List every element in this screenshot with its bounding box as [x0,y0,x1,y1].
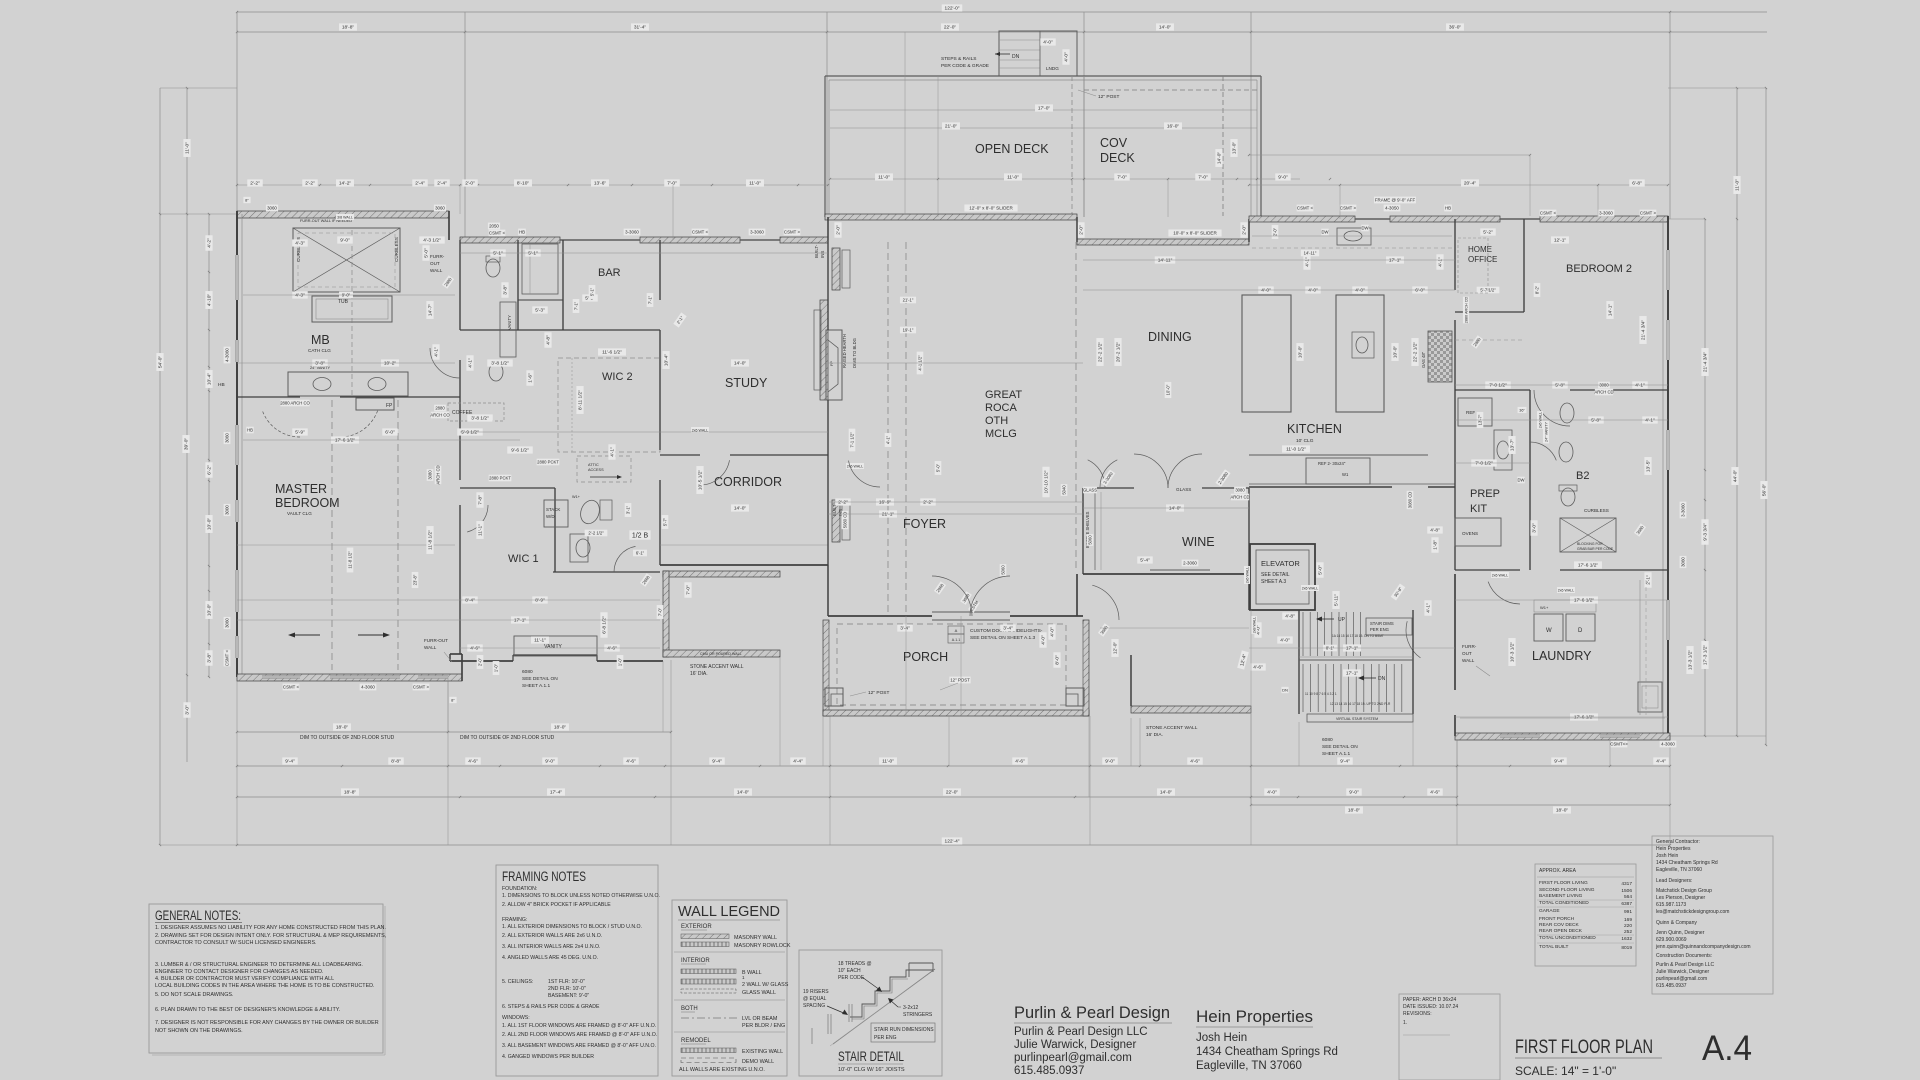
svg-text:BASEMENT: 9'-0": BASEMENT: 9'-0" [548,993,589,999]
bottom extension lines [236,677,238,845]
svg-text:1A 14 15 16 17 18 19: 1A 14 15 16 17 18 19- DN TO BSMT [1332,634,1384,638]
svg-text:7'-0": 7'-0" [1117,175,1127,181]
home office desk [1458,238,1488,293]
svg-text:8'-2": 8'-2" [1535,285,1540,294]
svg-text:PREP: PREP [1470,488,1500,500]
front wall and door [828,615,932,617]
svg-text:EXTERIOR: EXTERIOR [681,924,712,930]
svg-text:17'-1": 17'-1" [1346,646,1359,652]
stair detail box [799,950,942,1076]
svg-text:4-3060: 4-3060 [225,348,230,362]
svg-text:DIM TO OUTSIDE OF 2ND FLOOR ST: DIM TO OUTSIDE OF 2ND FLOOR STUD [460,735,555,741]
svg-text:PER CODE: PER CODE [838,975,865,981]
svg-text:DECK: DECK [1100,151,1135,165]
svg-text:2. ALL EXTERIOR WALLS ARE 2x6: 2. ALL EXTERIOR WALLS ARE 2x6 U.N.O. [502,933,602,939]
svg-text:VAULT CLG: VAULT CLG [287,511,312,516]
porch walls [823,620,829,716]
svg-text:WALL: WALL [1462,658,1475,663]
svg-text:24" VANITY: 24" VANITY [1544,422,1548,443]
toilet room fixtures top [486,259,500,277]
svg-text:39'-0": 39'-0" [184,438,190,451]
svg-text:3'-8": 3'-8" [207,653,213,663]
svg-text:PAPER: ARCH D 36x24: PAPER: ARCH D 36x24 [1403,997,1456,1003]
svg-text:DINING: DINING [1148,330,1192,344]
svg-text:3'-1": 3'-1" [626,505,631,514]
svg-text:BLOCKING FOR: BLOCKING FOR [1577,542,1603,546]
svg-text:615.987.1173: 615.987.1173 [1656,902,1686,908]
kitchen south wall [1249,486,1392,488]
svg-text:8'-4": 8'-4" [465,598,475,604]
WIC2 dashed shelving [558,358,660,452]
svg-text:10'-0": 10'-0" [1393,346,1399,359]
svg-text:DN: DN [1378,676,1386,682]
svg-text:TOTAL UNCONDITIONED: TOTAL UNCONDITIONED [1539,935,1596,941]
svg-text:1506: 1506 [1621,888,1632,894]
stair detail steps [850,970,933,1017]
svg-text:FP: FP [830,361,834,366]
closet arrows [290,634,320,636]
svg-text:BOTH: BOTH [681,1006,698,1012]
svg-text:D: D [1578,628,1583,634]
svg-text:11'-0": 11'-0" [878,175,890,181]
exterior wall top right section [1249,216,1355,222]
svg-text:4'-1": 4'-1" [434,347,440,357]
svg-text:122'-4": 122'-4" [945,839,960,845]
svg-text:DW: DW [1362,226,1369,231]
svg-text:2'-4": 2'-4" [437,181,447,187]
svg-text:5'-8": 5'-8" [1591,418,1601,424]
svg-text:5'-11": 5'-11" [1334,594,1340,606]
left dimension lines [159,88,161,845]
svg-text:10'-0": 10'-0" [207,604,213,617]
svg-text:4'-3": 4'-3" [295,241,305,247]
svg-text:3-3060: 3-3060 [1599,211,1613,216]
svg-text:CSMT >: CSMT > [1640,211,1657,216]
svg-text:4'-0": 4'-0" [1041,635,1047,645]
svg-text:Jenn Quinn, Designer: Jenn Quinn, Designer [1656,930,1705,936]
svg-text:17'-6 1/2": 17'-6 1/2" [1578,563,1599,569]
glass door dining [1100,460,1117,487]
svg-text:1. DESIGNER ASSUMES NO LIABILI: 1. DESIGNER ASSUMES NO LIABILITY FOR ANY… [155,925,386,931]
svg-text:19'-1": 19'-1" [903,328,914,333]
svg-text:14'-0": 14'-0" [734,361,747,367]
svg-text:17'-6 1/2": 17'-6 1/2" [335,438,356,444]
svg-text:DATE ISSUED: 10.07.24: DATE ISSUED: 10.07.24 [1403,1004,1458,1010]
svg-text:3'-0": 3'-0" [185,705,191,715]
svg-text:FIRST FLOOR LIVING: FIRST FLOOR LIVING [1539,880,1588,886]
svg-text:3'-8": 3'-8" [503,285,509,295]
interior dims right [1272,225,1279,239]
svg-text:11'-1": 11'-1" [534,638,546,644]
svg-text:4. BUILDER OR CONTRACTOR MUST: 4. BUILDER OR CONTRACTOR MUST VERIFY COM… [155,976,334,982]
svg-text:18'-0": 18'-0" [554,725,567,731]
svg-text:STRINGERS: STRINGERS [903,1012,933,1018]
svg-text:22'-0": 22'-0" [946,790,959,796]
svg-text:4'-6": 4'-6" [1015,759,1025,765]
svg-text:ACCESS: ACCESS [588,468,604,472]
exterior wall top mid with windows [460,237,560,243]
svg-text:LAUNDRY: LAUNDRY [1532,649,1592,663]
svg-text:4-3060: 4-3060 [361,685,375,690]
svg-text:WALL: WALL [424,645,437,650]
door arcs left wing [262,411,300,437]
svg-text:Quinn & Company: Quinn & Company [1656,920,1697,926]
svg-text:6'-8": 6'-8" [1632,181,1642,187]
svg-text:20'-4": 20'-4" [1464,181,1477,187]
svg-text:4'-6": 4'-6" [626,759,636,765]
svg-text:14'-0": 14'-0" [734,506,747,512]
svg-text:3060: 3060 [435,206,445,211]
svg-text:ARCH CD: ARCH CD [1230,495,1249,500]
kitchen range [1428,331,1452,382]
kitchen lower cabinets [1249,454,1428,456]
svg-text:MCLG: MCLG [985,428,1017,440]
svg-text:A: A [955,628,958,633]
MB bath shower [293,228,400,292]
svg-text:9'-6 1/2": 9'-6 1/2" [511,448,529,454]
svg-text:Purlin & Pearl Design LLC: Purlin & Pearl Design LLC [1656,962,1714,968]
svg-text:LOCAL BUILDING CODES IN THE AR: LOCAL BUILDING CODES IN THE AREA WHERE T… [155,983,375,989]
great room walls + labels [827,240,829,330]
svg-text:8019: 8019 [1621,945,1632,951]
svg-text:3060: 3060 [225,618,230,628]
svg-text:2050: 2050 [489,224,499,229]
svg-text:7'-0": 7'-0" [686,585,692,595]
svg-text:9'-4": 9'-4" [712,759,722,765]
svg-text:4'-4": 4'-4" [793,759,803,765]
svg-text:220: 220 [1624,923,1632,929]
left wing interior walls [459,240,461,330]
svg-text:WALL: WALL [430,268,443,273]
svg-text:SHEET A.1.1: SHEET A.1.1 [1322,751,1351,757]
svg-text:11'-0 1/2": 11'-0 1/2" [1286,447,1306,453]
svg-text:12 13 14 15 16 17 18 19: 12 13 14 15 16 17 18 19- UP TO 2ND FLR [1330,702,1391,706]
svg-text:5'-4": 5'-4" [1140,558,1150,564]
svg-text:STONE ACCENT WALL: STONE ACCENT WALL [690,664,744,670]
svg-text:10" EACH: 10" EACH [838,968,861,974]
svg-text:16' DIA.: 16' DIA. [690,671,708,677]
svg-text:6. PLAN DRAWN TO THE BEST OF D: 6. PLAN DRAWN TO THE BEST OF DESIGNER'S … [155,1007,340,1013]
svg-text:3060: 3060 [267,206,277,211]
svg-text:4'-0": 4'-0" [1043,40,1053,46]
svg-text:5'-9 1/2": 5'-9 1/2" [461,430,479,436]
svg-text:36'-0": 36'-0" [1449,25,1462,31]
mud hall arcs [1092,585,1119,620]
open/cov deck divider [1071,76,1073,217]
svg-text:5060: 5060 [1001,565,1006,575]
svg-text:ARCH CD: ARCH CD [1594,390,1613,395]
svg-text:18'-8": 18'-8" [344,790,357,796]
stairs [1298,610,1300,714]
svg-text:13'-7": 13'-7" [1478,414,1483,425]
svg-text:A.4: A.4 [1702,1029,1752,1068]
svg-text:6387: 6387 [1621,901,1632,907]
svg-text:CSMT <: CSMT < [283,685,300,690]
master bottom wall (windows) [237,674,462,681]
svg-text:3'-8": 3'-8" [315,361,325,367]
svg-text:16'-0": 16'-0" [1167,124,1180,130]
svg-text:7'-1 1/2": 7'-1 1/2" [850,432,855,448]
svg-text:SEE DETAIL: SEE DETAIL [1261,572,1290,578]
svg-text:22'-2 1/2": 22'-2 1/2" [1413,342,1419,363]
svg-text:2ND FLR: 10'-0": 2ND FLR: 10'-0" [548,986,586,992]
svg-text:HOME: HOME [1468,245,1492,254]
svg-text:Eagleville, TN 37060: Eagleville, TN 37060 [1196,1060,1302,1072]
wall legend box [672,900,787,1076]
svg-text:HB: HB [247,428,253,433]
open deck outline [825,75,1261,77]
svg-text:Lead Designers:: Lead Designers: [1656,878,1692,884]
interior dims center [917,352,924,375]
svg-text:REAR COV DECK: REAR COV DECK [1539,922,1580,928]
svg-text:REMODEL: REMODEL [681,1038,711,1044]
svg-text:4'-1": 4'-1" [886,435,891,444]
svg-text:1/2 B: 1/2 B [632,533,649,540]
svg-text:21'-1": 21'-1" [903,298,914,303]
svg-text:DW: DW [1518,478,1525,483]
svg-text:WALL LEGEND: WALL LEGEND [678,903,780,920]
svg-text:2880 ARCH CO: 2880 ARCH CO [280,401,310,406]
svg-text:4-3050: 4-3050 [1385,206,1399,211]
long extension lines across plan [237,362,455,364]
svg-text:54'-0": 54'-0" [158,356,164,369]
svg-text:4'-6": 4'-6" [468,759,478,765]
svg-text:GREAT: GREAT [985,389,1022,401]
svg-text:18 TREADS @: 18 TREADS @ [838,961,872,967]
svg-text:1. ALL EXTERIOR DIMENSIONS TO: 1. ALL EXTERIOR DIMENSIONS TO BLOCK / ST… [502,924,642,930]
svg-text:10'-4": 10'-4" [207,373,213,386]
elevator [1250,544,1315,610]
svg-text:4'-0": 4'-0" [1280,638,1290,644]
svg-text:CMU OR POURED WALL: CMU OR POURED WALL [700,652,742,656]
porch dashed ceiling [837,624,1066,705]
svg-text:CSMT >: CSMT > [784,230,801,235]
svg-text:2'-2": 2'-2" [250,181,260,187]
interior dims left wing [292,239,307,246]
prep kit [1454,390,1456,570]
svg-text:17'-6 1/2": 17'-6 1/2" [1574,598,1595,604]
svg-text:7'-0": 7'-0" [1198,175,1208,181]
svg-text:DEMO WALL: DEMO WALL [742,1059,774,1065]
svg-text:5'-3": 5'-3" [535,308,545,314]
labels under top-mid wall [488,223,500,230]
svg-text:3'-4": 3'-4" [900,626,910,632]
svg-text:DIMS TO BLDG: DIMS TO BLDG [852,338,857,368]
svg-text:4'-1": 4'-1" [1645,418,1655,424]
stack w/d [544,500,568,527]
svg-text:2'-0": 2'-0" [1079,225,1085,235]
svg-text:2-3060: 2-3060 [1183,561,1197,566]
svg-text:14'-0": 14'-0" [1159,25,1172,31]
svg-text:11'-0": 11'-0" [882,759,894,765]
great room built-ins top/bottom [832,248,840,290]
svg-text:16' DIA.: 16' DIA. [1146,732,1163,738]
svg-text:5040: 5040 [1062,485,1067,495]
svg-text:2. DRAWING SET FOR DESIGN INTE: 2. DRAWING SET FOR DESIGN INTENT ONLY. F… [155,933,387,939]
svg-text:Hein Properties: Hein Properties [1656,846,1691,852]
top extension lines [236,12,238,214]
svg-text:ARCH CD: ARCH CD [436,465,441,484]
svg-text:CATH CLG: CATH CLG [308,348,331,353]
svg-text:9'-0": 9'-0" [1105,759,1115,765]
svg-text:3-3060: 3-3060 [750,230,764,235]
BAR room counters [518,299,563,301]
MB vanity [288,372,408,396]
svg-text:8'-11 1/2": 8'-11 1/2" [578,390,584,410]
svg-text:615.485.0937: 615.485.0937 [1656,983,1687,989]
great room dashed ceiling lines [887,242,889,612]
framing notes box [496,865,658,1076]
svg-text:2'-0": 2'-0" [465,181,475,187]
svg-text:1'-8": 1'-8" [1433,540,1439,550]
svg-text:12" POST: 12" POST [1098,94,1120,100]
wine room [1082,488,1084,574]
svg-text:NOT SHOWN ON THE DRAWINGS.: NOT SHOWN ON THE DRAWINGS. [155,1028,243,1034]
svg-text:1ST FLR: 10'-0": 1ST FLR: 10'-0" [548,979,585,985]
svg-text:3080 CD: 3080 CD [1408,492,1413,509]
svg-text:9'-4": 9'-4" [1554,759,1564,765]
svg-text:11'-6 1/2": 11'-6 1/2" [602,350,622,356]
svg-text:purlinpearl@gmail.com: purlinpearl@gmail.com [1014,1052,1132,1064]
svg-text:GAS 48": GAS 48" [1421,351,1426,368]
svg-text:2880 ARCH CD: 2880 ARCH CD [1464,296,1468,323]
svg-text:122'-0": 122'-0" [945,6,960,12]
svg-text:Purlin & Pearl Design LLC: Purlin & Pearl Design LLC [1014,1026,1148,1038]
svg-text:2'-0": 2'-0" [478,657,483,666]
svg-text:6'-2": 6'-2" [207,465,213,475]
svg-text:9'-4": 9'-4" [1340,759,1350,765]
svg-text:2'-0": 2'-0" [1242,225,1248,235]
svg-text:SPACING: SPACING [803,1003,825,1009]
svg-text:10'-0" x 8'-0" SLIDER: 10'-0" x 8'-0" SLIDER [1173,231,1217,236]
svg-text:PER CODE & GRADE: PER CODE & GRADE [941,63,989,69]
svg-text:Hein Properties: Hein Properties [1196,1007,1313,1026]
svg-text:Josh Hein: Josh Hein [1196,1032,1247,1044]
svg-text:31'-4": 31'-4" [634,25,647,31]
svg-text:18'-0": 18'-0" [1556,808,1569,814]
right section walls [1454,219,1456,290]
svg-text:8'-0": 8'-0" [1055,655,1061,665]
svg-text:CSMT >: CSMT > [413,685,430,690]
svg-text:2x6 WALL: 2x6 WALL [692,428,708,432]
svg-text:13'-0": 13'-0" [1232,142,1238,155]
dim row above top wall [237,184,828,186]
svg-text:CSMT >: CSMT > [1340,206,1357,211]
svg-text:12'-0": 12'-0" [1113,642,1119,655]
svg-text:FRONT PORCH: FRONT PORCH [1539,916,1575,922]
svg-text:4'-0": 4'-0" [1355,288,1365,294]
svg-text:4'-10": 4'-10" [207,294,213,307]
corridor walls [659,240,661,300]
svg-text:4'-2": 4'-2" [207,238,213,248]
svg-text:VANITY: VANITY [544,644,562,650]
svg-text:KITCHEN: KITCHEN [1287,422,1342,436]
svg-text:22'-0": 22'-0" [944,25,957,31]
svg-text:7'-0 1/2": 7'-0 1/2" [1489,383,1507,389]
svg-text:SEE DETAIL ON: SEE DETAIL ON [522,676,558,682]
svg-text:SHEET A.1.1: SHEET A.1.1 [522,683,551,689]
svg-text:4-3060: 4-3060 [1661,742,1675,747]
svg-text:11'-0": 11'-0" [1735,179,1741,191]
svg-text:4'-1": 4'-1" [1426,603,1432,613]
svg-text:564: 564 [1624,894,1632,900]
svg-text:STAIR DETAIL: STAIR DETAIL [838,1049,904,1064]
svg-text:14'-11": 14'-11" [1304,251,1317,256]
svg-text:ATTIC: ATTIC [588,463,599,467]
svg-text:TOTAL BUILT: TOTAL BUILT [1539,944,1568,950]
svg-text:OUT: OUT [1462,651,1472,656]
svg-text:CURBLESS: CURBLESS [1584,508,1609,513]
svg-text:8'-10": 8'-10" [517,181,530,187]
svg-text:LNDG: LNDG [1046,66,1059,71]
svg-text:7'-0": 7'-0" [667,181,677,187]
svg-text:7. DESIGNER IS NOT RESPONSIBLE: 7. DESIGNER IS NOT RESPONSIBLE FOR ANY C… [155,1020,379,1026]
svg-text:7'-8": 7'-8" [478,495,484,505]
courtyard stone walls [663,571,780,577]
svg-text:CSMT <: CSMT < [692,230,709,235]
svg-text:FOUNDATION:: FOUNDATION: [502,886,537,892]
cov deck lower band [1077,239,1249,245]
svg-text:purlinpearl@gmail.com: purlinpearl@gmail.com [1656,976,1707,982]
svg-text:12" POST: 12" POST [950,678,970,683]
svg-text:3080: 3080 [1235,488,1245,493]
bottom dimension lines [237,731,671,733]
svg-text:10'-0": 10'-0" [1166,384,1171,395]
svg-text:les@matchstickdesigngroup.com: les@matchstickdesigngroup.com [1656,909,1729,915]
lower-left step walls [461,654,463,681]
svg-text:14'-0": 14'-0" [1160,790,1173,796]
svg-text:12'-0" x 8'-0" SLIDER: 12'-0" x 8'-0" SLIDER [969,206,1013,211]
svg-text:2'-4": 2'-4" [415,181,425,187]
bottom mid walls / stair + mud [1083,573,1249,575]
right exterior wall [1667,216,1669,739]
svg-text:3060: 3060 [1681,557,1686,567]
svg-text:10'-0" CLG W/ 16" JOISTS: 10'-0" CLG W/ 16" JOISTS [838,1067,905,1073]
svg-text:TUB: TUB [338,299,349,305]
svg-text:22'-2 1/2": 22'-2 1/2" [1098,342,1104,363]
svg-text:18'-8": 18'-8" [342,25,355,31]
svg-text:HB: HB [218,382,225,388]
svg-text:OTH: OTH [985,415,1008,427]
svg-text:MASONRY WALL: MASONRY WALL [734,935,777,941]
svg-text:10'-0": 10'-0" [1298,346,1304,359]
svg-text:LVL OR BEAM: LVL OR BEAM [742,1016,778,1022]
svg-text:16'-9": 16'-9" [879,500,892,506]
svg-text:6'-1": 6'-1" [636,551,645,556]
svg-text:12'-1": 12'-1" [1554,238,1567,244]
svg-text:DN: DN [1012,54,1020,60]
svg-text:2 WALL W/ GLASS: 2 WALL W/ GLASS [742,982,789,988]
svg-text:21'-4 3/4": 21'-4 3/4" [1641,320,1647,341]
svg-text:OVENS: OVENS [1462,531,1478,536]
svg-text:FP: FP [386,403,393,409]
svg-text:5'-0": 5'-0" [1318,565,1324,575]
bedroom2 bottom wall [1455,389,1530,391]
general notes box [149,904,383,1053]
svg-text:TOTAL CONDITIONED: TOTAL CONDITIONED [1539,900,1589,906]
svg-text:14'-7": 14'-7" [428,304,434,317]
svg-text:4'-6": 4'-6" [470,646,480,652]
foyer door label [948,626,964,634]
svg-text:2880 PCKT: 2880 PCKT [537,460,559,465]
svg-text:Matchstick Design Group: Matchstick Design Group [1656,888,1712,894]
kitchen sink / dw top [1337,228,1371,245]
svg-text:17'-3 1/2": 17'-3 1/2" [1703,645,1709,666]
svg-text:Construction Documents:: Construction Documents: [1656,953,1712,959]
tub [312,296,392,322]
svg-text:11'-0": 11'-0" [185,142,191,154]
svg-text:5. DO NOT SCALE DRAWINGS.: 5. DO NOT SCALE DRAWINGS. [155,992,233,998]
